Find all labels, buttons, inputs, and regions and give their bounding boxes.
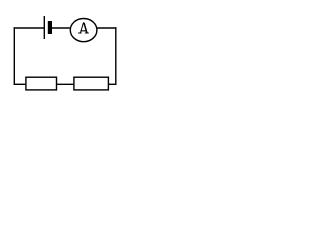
battery short thick plate (-) xyxy=(48,21,52,34)
letter A right foot serif xyxy=(85,33,89,34)
letter A left diagonal xyxy=(81,23,84,33)
wire between resistors xyxy=(57,83,74,85)
wire right vertical xyxy=(115,27,117,85)
letter A crossbar xyxy=(81,30,87,31)
resistor R1 xyxy=(26,77,57,90)
wire bottom-right horizontal xyxy=(108,83,117,85)
wire ammeter to top-right xyxy=(97,27,117,29)
wire left vertical xyxy=(13,27,15,85)
letter A left foot serif xyxy=(78,33,81,34)
letter A apex serif xyxy=(83,22,84,24)
resistor R2 xyxy=(74,77,109,90)
ammeter A xyxy=(70,19,97,42)
letter A right diagonal xyxy=(84,23,87,33)
wire top-left horizontal xyxy=(14,27,45,29)
battery long plate (+) xyxy=(43,16,45,39)
wire battery to ammeter xyxy=(52,27,70,29)
wire bottom-left horizontal xyxy=(14,83,27,85)
